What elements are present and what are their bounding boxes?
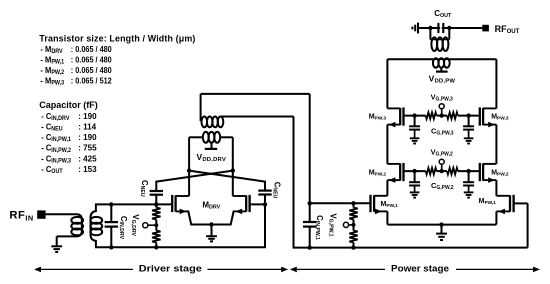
label CNEU right bbox=[271, 182, 281, 199]
transistor MPW,1 left bbox=[369, 195, 371, 212]
terminal VG,PW,2 circle bbox=[441, 164, 443, 171]
svg-text:: 0.065 / 512: : 0.065 / 512 bbox=[71, 76, 112, 86]
svg-text:Transistor size: Length / Widt: Transistor size: Length / Width (μm) bbox=[39, 33, 195, 43]
ground sideways at output bbox=[417, 23, 419, 34]
node power common source bbox=[439, 222, 443, 226]
label VG,PW,1 bbox=[328, 213, 338, 236]
interstage transformer primary winding bbox=[203, 132, 209, 143]
ground at MDRV source bbox=[206, 235, 217, 237]
node row3 gate left bbox=[412, 113, 416, 117]
input transformer T_IN primary winding bbox=[71, 217, 83, 224]
node row2 tap bbox=[440, 169, 444, 173]
wire power gate rail bbox=[310, 202, 370, 204]
port RFIN terminal bbox=[37, 210, 45, 218]
transistor MDRV left bbox=[171, 195, 173, 212]
capacitor COUT bbox=[440, 24, 442, 33]
transistor MPW,2 right bbox=[479, 163, 481, 181]
wire power common source rail bbox=[387, 224, 496, 226]
svg-text:: 114: : 114 bbox=[78, 121, 96, 131]
svg-text:: 425: : 425 bbox=[78, 153, 97, 163]
capacitor CNEU right bbox=[189, 171, 265, 191]
wire MDRV left drain vertical bbox=[188, 137, 190, 196]
node driver bias bottom bbox=[154, 245, 158, 249]
wire interstage secondary left to top bbox=[200, 94, 202, 121]
node power input at gate rail bbox=[308, 201, 312, 205]
node output secondary right bbox=[447, 26, 451, 30]
node CIN,PW,1 bottom bbox=[308, 245, 312, 249]
capacitor CIN,DRV bbox=[110, 204, 112, 222]
transistor MPW,2 left bbox=[402, 163, 404, 181]
svg-text:Capacitor (fF): Capacitor (fF) bbox=[39, 100, 98, 110]
capacitor CG,PW,2 left bbox=[414, 171, 416, 182]
wire interstage primary left bbox=[189, 136, 203, 138]
ground at CG,PW,2 right bbox=[464, 191, 474, 193]
power tap VDD,DRV bbox=[211, 143, 213, 148]
ground at input transformer primary bbox=[51, 245, 62, 247]
terminal VG,DRV circle bbox=[143, 223, 148, 228]
wire interstage top to power input bbox=[201, 93, 310, 95]
wire left column drain vertical segments bbox=[386, 59, 388, 108]
wire bias tap to VG,DRV circle bbox=[148, 224, 156, 226]
node driver bias tap bbox=[154, 223, 158, 227]
wire common source to ground bbox=[211, 225, 213, 237]
interstage transformer secondary winding bbox=[202, 117, 208, 128]
resistor RG,PW,3 left bbox=[426, 112, 437, 119]
ground at CG,PW,2 left bbox=[410, 191, 420, 193]
wire interstage secondary right bbox=[222, 116, 294, 118]
resistor power bias upper bbox=[353, 203, 355, 207]
transistor MPW,3 left bbox=[402, 107, 404, 125]
output transformer primary winding bbox=[387, 58, 433, 60]
ground at CG,PW,3 left bbox=[410, 137, 420, 139]
svg-text:: 153: : 153 bbox=[78, 164, 97, 174]
wire MDRV right gate rail bbox=[250, 203, 266, 205]
power tap VDD,PW bbox=[440, 68, 442, 71]
output transformer secondary winding bbox=[429, 28, 431, 40]
resistor power bias lower bbox=[353, 220, 355, 231]
dimension arrow driver stage bbox=[39, 268, 133, 270]
wire MDRV right drain vertical bbox=[232, 137, 234, 196]
wire power bottom rail bbox=[293, 247, 528, 249]
node MDRV common source bbox=[209, 222, 213, 226]
svg-text:: 0.065 / 480: : 0.065 / 480 bbox=[71, 65, 112, 75]
dimension arrow power stage bbox=[295, 268, 385, 270]
wire row3 gate line right bbox=[458, 115, 479, 117]
transistor MDRV right bbox=[248, 195, 250, 212]
wire row3 gate line left bbox=[405, 115, 426, 117]
node MDRV right drain bbox=[231, 168, 235, 172]
node power bias bottom bbox=[351, 245, 355, 249]
node power bias tap bbox=[352, 223, 356, 227]
node row2 gate left bbox=[412, 169, 416, 173]
terminal VG,PW,3 circle bbox=[441, 109, 443, 116]
terminal VG,PW,1 circle bbox=[343, 222, 348, 227]
node row2 gate right bbox=[466, 169, 470, 173]
input transformer T_IN secondary winding bbox=[91, 204, 96, 247]
wire MDRV left gate bbox=[171, 203, 172, 205]
transistor MPW,1 right bbox=[512, 195, 514, 212]
resistor driver bias upper bbox=[155, 204, 157, 207]
node row3 tap bbox=[440, 113, 444, 117]
node CIN,DRV bottom bbox=[109, 245, 113, 249]
svg-text:Power stage: Power stage bbox=[391, 264, 449, 274]
wire common source to ground bbox=[441, 225, 443, 234]
wire CNEU right to bottom rail bbox=[264, 204, 266, 247]
svg-text:: 190: : 190 bbox=[78, 111, 97, 121]
label CNEU left bbox=[139, 180, 149, 197]
resistor RG,PW,3 right bbox=[442, 115, 447, 117]
ground at power common source bbox=[436, 233, 447, 235]
wire RFIN to input transformer bbox=[46, 214, 82, 236]
capacitor CNEU left bbox=[156, 171, 233, 191]
wire MDRV sources to common node bbox=[188, 211, 233, 224]
wire output top bbox=[418, 27, 482, 29]
node driver bias top bbox=[154, 202, 158, 206]
resistor driver bias lower bbox=[155, 220, 157, 231]
svg-text:Driver stage: Driver stage bbox=[139, 264, 202, 274]
label CIN,PW,1 bbox=[314, 215, 324, 240]
wire bias tap to VG,PW,1 circle bbox=[349, 224, 354, 226]
svg-text:: 755: : 755 bbox=[78, 142, 97, 152]
label VG,DRV bbox=[130, 214, 140, 236]
capacitor CG,PW,3 left bbox=[414, 116, 416, 127]
wire row2 gate line left bbox=[405, 170, 426, 172]
wire secondary axis bbox=[90, 217, 92, 235]
node output secondary left bbox=[428, 26, 432, 30]
wire driver bottom rail bbox=[95, 246, 266, 248]
wire interstage secondary right down to power bottom rail bbox=[293, 117, 295, 248]
svg-text:: 0.065 / 480: : 0.065 / 480 bbox=[71, 44, 112, 54]
wire MPW,1 right gate loop bbox=[514, 202, 528, 204]
wire row2 gate line right bbox=[458, 170, 479, 172]
node power bias top bbox=[351, 201, 355, 205]
wire input transformer primary to ground bbox=[56, 236, 58, 246]
port RFOUT terminal bbox=[482, 25, 489, 32]
node MDRV left drain bbox=[187, 168, 191, 172]
node CIN,DRV top bbox=[109, 202, 113, 206]
svg-text:: 0.065 / 480: : 0.065 / 480 bbox=[71, 55, 112, 65]
resistor RG,PW,2 left bbox=[426, 168, 437, 175]
node row3 gate right bbox=[466, 113, 470, 117]
resistor RG,PW,2 right bbox=[442, 170, 447, 172]
ground at CG,PW,3 right bbox=[464, 137, 474, 139]
label CIN,DRV bbox=[118, 216, 128, 240]
svg-text:: 190: : 190 bbox=[78, 132, 97, 142]
wire interstage primary right bbox=[220, 136, 233, 138]
wire driver gate rail (top) bbox=[95, 203, 171, 205]
wire right column drain vertical segments bbox=[495, 59, 497, 108]
node CNEU right at gate rail bbox=[263, 202, 267, 206]
capacitor CG,PW,3 right bbox=[468, 116, 470, 127]
transistor MPW,3 right bbox=[479, 107, 481, 125]
capacitor CIN,PW,1 bbox=[309, 203, 311, 222]
capacitor CG,PW,2 right bbox=[468, 171, 470, 182]
